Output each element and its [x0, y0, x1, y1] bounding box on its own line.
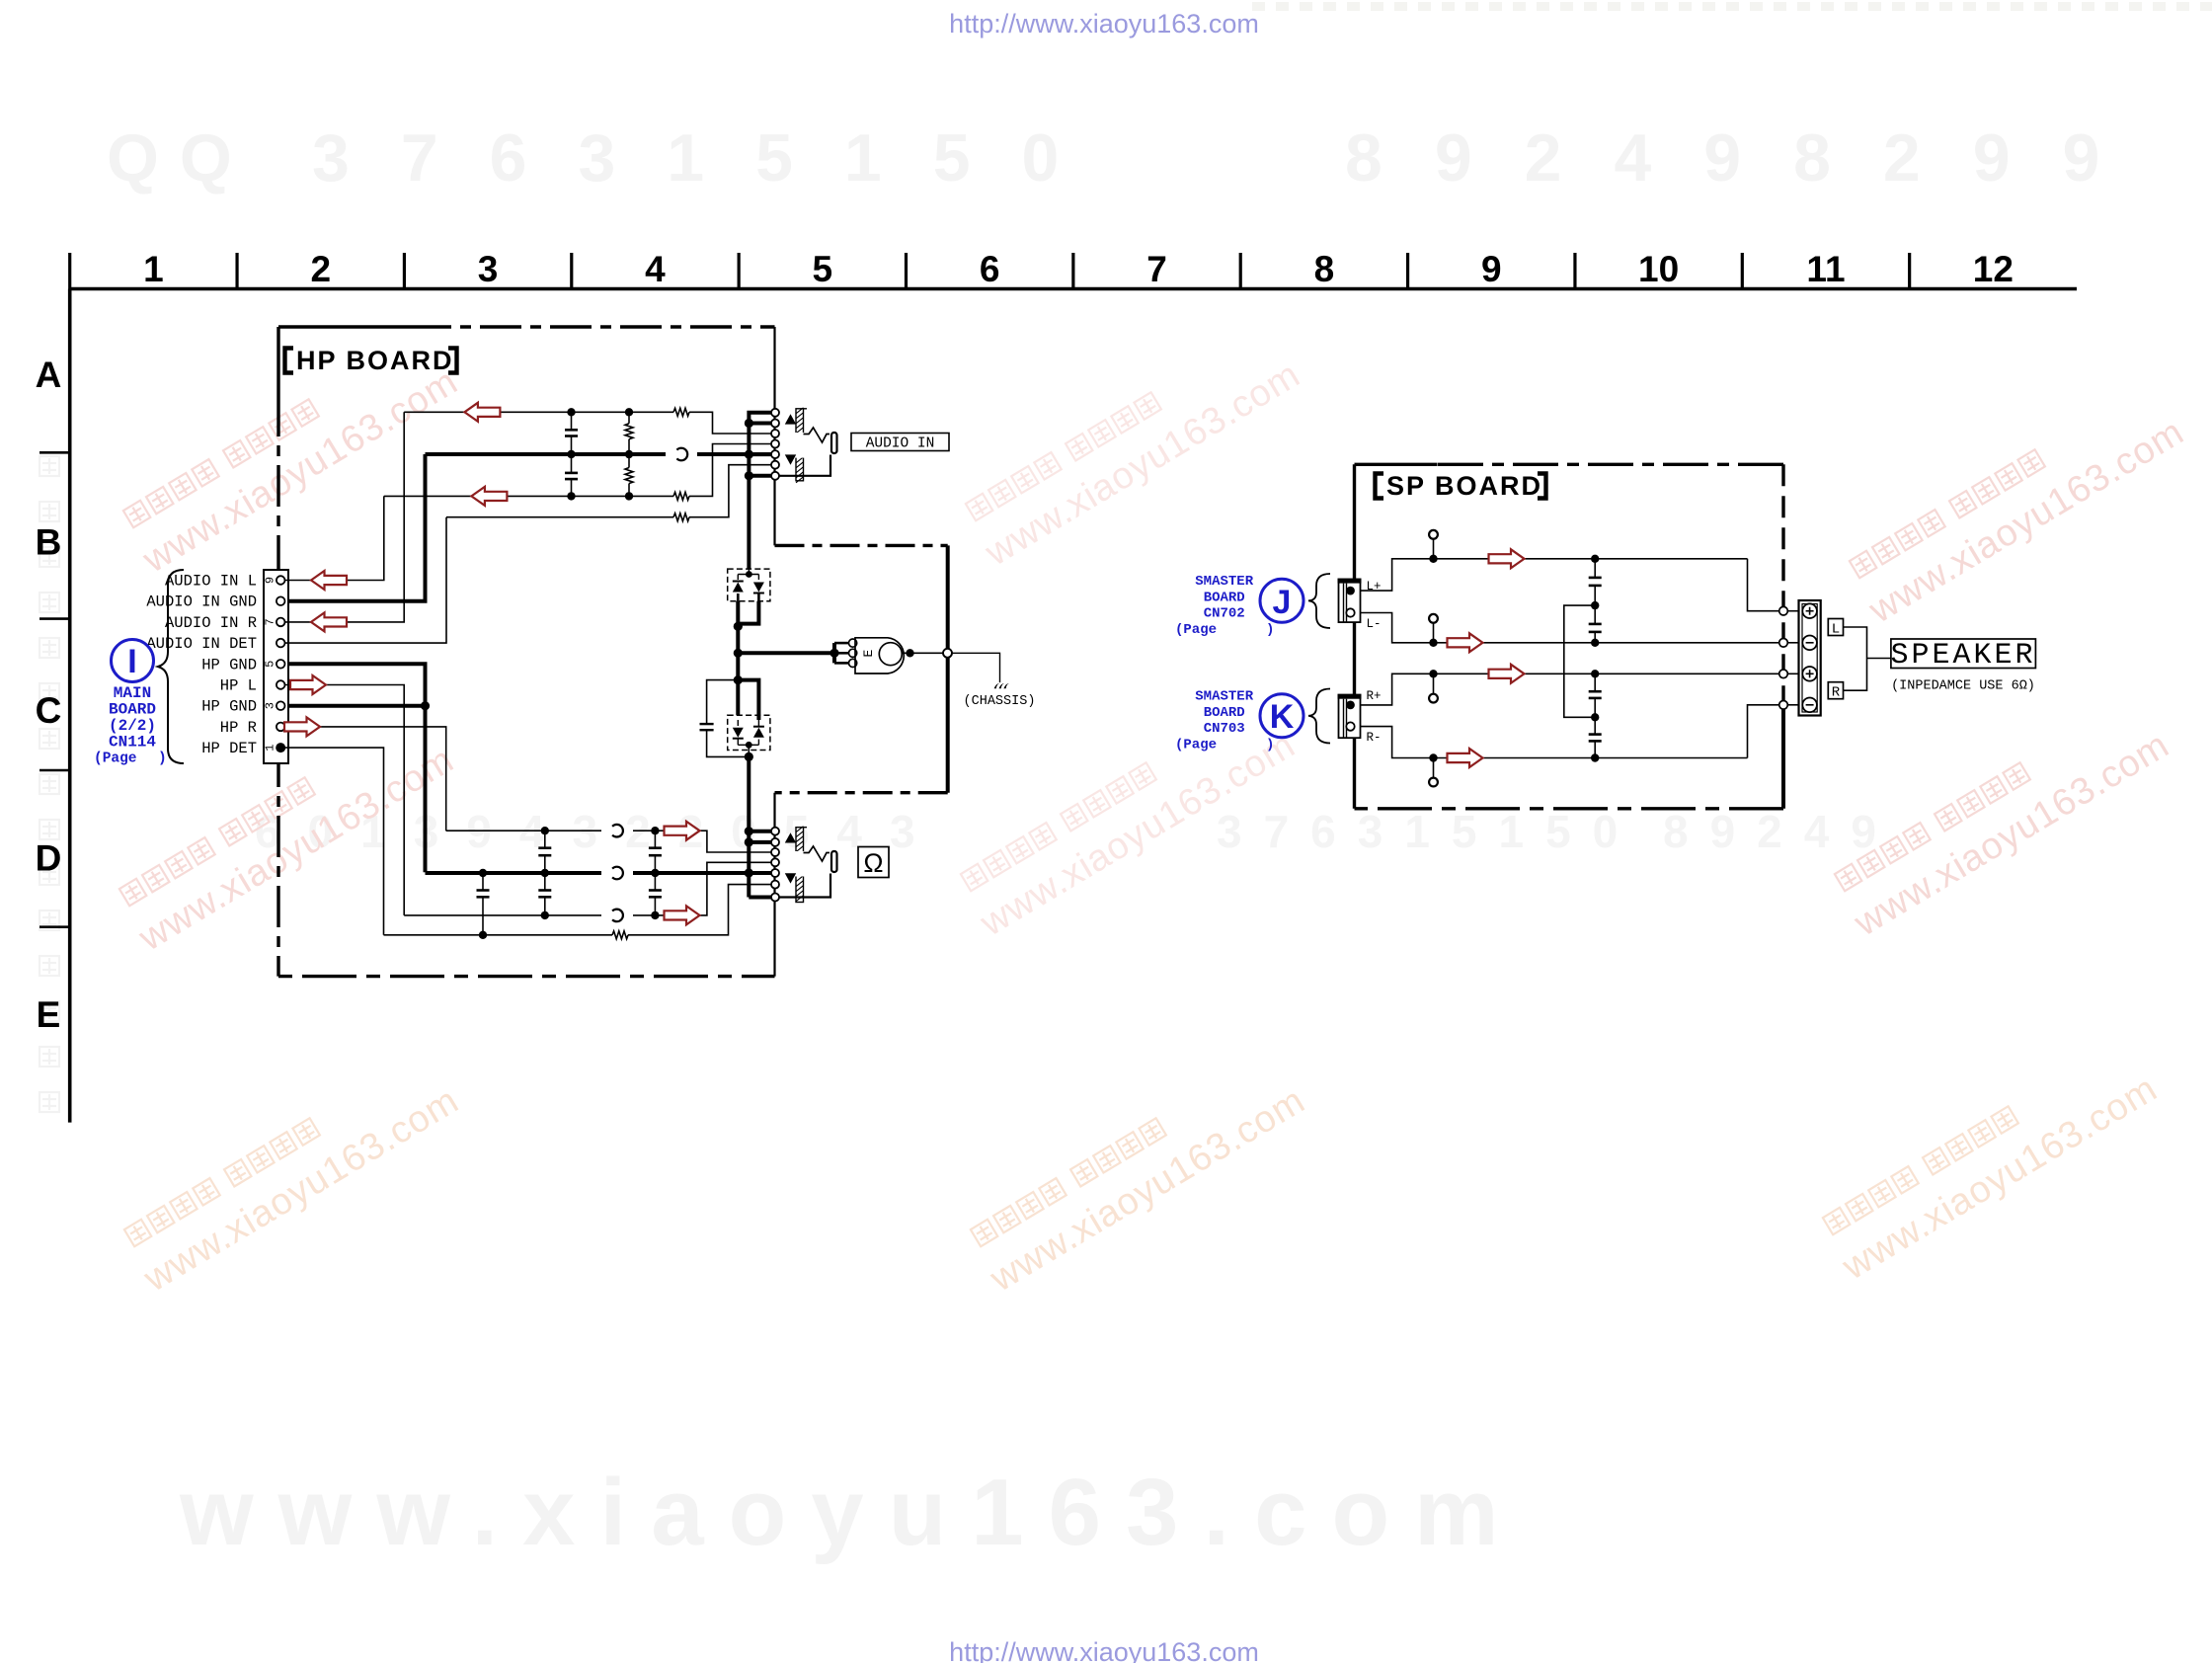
diode D2a (anode up) [733, 728, 744, 738]
junction dots on HP sleeve bus [745, 827, 753, 878]
label box R [1828, 682, 1843, 699]
svg-text:AUDIO IN: AUDIO IN [866, 436, 935, 452]
arrow on L+ [1489, 549, 1525, 568]
wire HP DET pin1 to column [280, 748, 384, 935]
SPEAKER label box [1891, 639, 2035, 669]
svg-text:BOARD: BOARD [1204, 590, 1245, 605]
connector CN702 pin filled [1346, 587, 1355, 595]
HP BOARD protrusion top edge [775, 544, 948, 547]
svg-text:3: 3 [478, 249, 499, 289]
connector CN114 pin labels [146, 573, 257, 758]
chassis jack E1 inner circle [879, 643, 902, 666]
audio-in jack J1 down triangle contact [785, 454, 796, 464]
svg-text:(INPEDAMCE USE 6Ω): (INPEDAMCE USE 6Ω) [1891, 679, 2035, 694]
svg-text:9: 9 [1481, 249, 1502, 289]
wire AUDIO IN R pin7 to column [284, 412, 404, 622]
blue circle J [1260, 579, 1303, 622]
HP BOARD outline right edge upper (through AUDIO IN jack pins) [773, 327, 775, 545]
HP BOARD protrusion right edge [946, 545, 950, 648]
svg-text:892498299: 892498299 [1345, 120, 2152, 196]
svg-text:R: R [1832, 685, 1841, 701]
capacitor C1 (row A-B) [571, 412, 573, 430]
HP jack pin1 stub [749, 830, 771, 833]
ruler ticks [70, 253, 1910, 289]
svg-text:(Page: (Page [1175, 622, 1217, 638]
svg-text:HP GND: HP GND [201, 698, 257, 716]
connector CN703 pin open [1346, 722, 1354, 730]
svg-text:): ) [158, 752, 167, 767]
terminal block TB1 [1799, 600, 1821, 716]
svg-text:CN703: CN703 [1204, 721, 1245, 737]
svg-text:AUDIO IN GND: AUDIO IN GND [146, 594, 257, 611]
test point TP4 below R- [1433, 758, 1435, 778]
svg-text:BOARD: BOARD [109, 701, 156, 719]
audio jack pin5 stub [749, 452, 771, 456]
wire AUDIO IN L pin9 to column [284, 496, 384, 580]
svg-text:6: 6 [980, 249, 1000, 289]
HP jack pin5 stub [749, 871, 771, 875]
connector CN703 pin filled [1346, 701, 1355, 710]
audio-in jack J1 sleeve outline [779, 455, 830, 476]
svg-text:BOARD: BOARD [1204, 705, 1245, 721]
svg-text:): ) [1266, 622, 1274, 638]
wire HP R pin2 to column [284, 727, 446, 831]
ruler numbers 1-12 [143, 249, 2014, 289]
headphone jack J2 pin circles [771, 828, 779, 902]
junction HP GND node [421, 701, 430, 710]
diode module D1 box [728, 569, 770, 601]
svg-text:HP L: HP L [220, 677, 257, 695]
wire L to speaker [1844, 627, 1867, 659]
headphone jack J2 down triangle contact [785, 873, 796, 883]
headphone jack J2 body edge [804, 827, 808, 829]
svg-text:D: D [36, 838, 62, 879]
svg-text:1: 1 [264, 744, 277, 751]
test point TP3 below R+ [1433, 673, 1435, 694]
HP BOARD outline bottom edge [278, 975, 775, 978]
arrow on R- [1448, 749, 1483, 767]
connector CN702 pin open [1346, 608, 1354, 616]
ferrite bead L1 on row B [676, 448, 687, 461]
svg-text:11: 11 [1806, 249, 1845, 289]
SP BOARD outline right edge [1781, 464, 1784, 705]
audio jack pin2 stub [749, 422, 771, 426]
junction dots lower network [479, 827, 660, 939]
svg-text:Ω: Ω [863, 848, 883, 878]
chassis jack E1 pin circles [849, 639, 857, 668]
board edge terminal circle [943, 649, 952, 658]
watermark top-right gray band [1252, 2, 2212, 11]
junction dot below D1 [734, 622, 743, 631]
resistor R4 vertical (row A-B) [628, 412, 630, 423]
svg-text:HP DET: HP DET [201, 740, 257, 757]
junction D1 entry dot [746, 571, 752, 578]
SP BOARD outline bottom edge [1355, 807, 1784, 810]
svg-text:376315150: 376315150 [312, 120, 1110, 196]
chassis jack E1 pin stubs [832, 643, 836, 663]
headphone jack J2 up triangle contact [785, 832, 796, 842]
svg-text:(Page: (Page [94, 752, 137, 767]
arrow on R+ [1489, 665, 1525, 683]
connector CN702 body [1339, 580, 1361, 623]
row letters A-E [36, 355, 62, 1035]
svg-text:http://www.xiaoyu163.com: http://www.xiaoyu163.com [949, 1637, 1259, 1663]
svg-text:1: 1 [143, 249, 164, 289]
svg-text:MAIN: MAIN [114, 684, 151, 702]
headphone jack J2 tip spring symbol [804, 846, 830, 861]
wire R+ from CN703 [1361, 673, 1779, 705]
svg-text:www.xiaoyu163.com: www.xiaoyu163.com [179, 1460, 1523, 1565]
wire to chassis jack E1 (thick) [738, 651, 834, 655]
arrow on row E [665, 822, 700, 840]
thick sleeve bus vertical (audio jack) [749, 413, 771, 569]
svg-text:9: 9 [264, 577, 277, 584]
watermark pink units [117, 330, 465, 582]
capacitor C3 (bypass at D2) [707, 680, 739, 725]
audio-in jack J1 body edge [804, 408, 808, 410]
wire HP GND pin5 (thick) [288, 664, 426, 872]
capacitor C4 (F-H) [482, 873, 484, 891]
HP jack pin2 stub [749, 840, 771, 844]
HP BOARD title [285, 346, 457, 375]
wire row B AUDIO IN GND (thick) [426, 452, 667, 456]
connector I circle (MAIN BOARD) [112, 640, 154, 682]
diode D1b (anode up) [753, 583, 764, 593]
svg-text:J: J [1273, 584, 1292, 621]
wire row E (HP R net) [446, 830, 601, 831]
watermark left vertical gray column [39, 456, 59, 1112]
wire R- from CN703 [1361, 727, 1748, 758]
audio-in jack J1 tip spring symbol [804, 428, 830, 442]
test point TP2 above L- [1433, 623, 1435, 643]
wire HP L pin4 to column [284, 685, 404, 915]
svg-text:R+: R+ [1367, 689, 1382, 703]
connector CN114 body [264, 570, 288, 763]
svg-text:376315150: 376315150 [1217, 806, 1639, 857]
svg-text:AUDIO IN R: AUDIO IN R [165, 614, 257, 632]
terminal block TB1 terminals [1802, 603, 1817, 618]
arrow on row A [464, 403, 500, 422]
svg-text:HP R: HP R [220, 719, 257, 737]
svg-text:C: C [36, 690, 62, 731]
arrow on AUDIO IN L wire [311, 571, 347, 590]
svg-text:(Page: (Page [1175, 737, 1217, 752]
connector CN114 pin numbers [264, 577, 277, 752]
svg-text:AUDIO IN L: AUDIO IN L [165, 573, 257, 591]
capacitor C11 (R+) [1594, 673, 1596, 691]
arrow on row G [665, 906, 700, 924]
diode D2b (anode down) [753, 728, 764, 738]
svg-text:8: 8 [1314, 249, 1335, 289]
wire row H (HP DET net) [384, 934, 613, 936]
svg-text:K: K [1270, 698, 1295, 736]
HP jack pin7 stub [749, 896, 771, 900]
audio-in jack J1 tip bar [831, 433, 837, 453]
wire to SPEAKER box [1867, 658, 1891, 660]
junction big dot below D2 [745, 752, 753, 761]
capacitor C2 (row B-C) [571, 454, 573, 473]
arrow on HP L wire [290, 675, 326, 694]
headphone jack J2 sleeve outline [779, 874, 830, 898]
ruler horizontal line [69, 287, 2077, 291]
wire row A (AUDIO IN R net) [404, 411, 673, 413]
capacitor C6 (F-G col1) [544, 873, 546, 891]
capacitor C7 (E-F col2) [654, 831, 656, 848]
chassis ground symbol [994, 683, 1009, 688]
diode module D2 box [728, 715, 770, 750]
row separator ticks [39, 452, 70, 926]
svg-text:10: 10 [1638, 249, 1679, 289]
svg-text:I: I [127, 643, 136, 680]
wire D1 output merge [738, 601, 758, 624]
diode D1a (anode down) [733, 583, 744, 593]
chassis jack E1 body [855, 638, 904, 673]
junction dots on sleeve bus [745, 419, 753, 481]
wire chassis [952, 653, 1000, 682]
resistor R3 on row D [673, 514, 689, 521]
wire AUDIO IN DET pin6 to column [284, 517, 446, 643]
HP BOARD outline right edge lower (through HP jack pins) [773, 793, 775, 977]
SP BOARD outline top edge [1355, 463, 1438, 466]
wire row D (AUDIO IN DET net) [446, 516, 673, 518]
wire E1 to board edge [902, 652, 943, 654]
bead L4 on row G [612, 910, 623, 922]
AUDIO IN label box [851, 434, 949, 451]
arrow on HP R wire [284, 717, 320, 736]
left border line [68, 289, 72, 1123]
audio-in jack J1 pin circles [771, 409, 779, 480]
svg-text:CN114: CN114 [109, 734, 156, 752]
audio-in jack J1 hatched sleeve bar [796, 409, 804, 481]
svg-text:4: 4 [645, 249, 666, 289]
arrow on AUDIO IN R wire [311, 612, 347, 631]
SP BOARD title [1376, 471, 1546, 501]
connector CN114 pins [276, 576, 285, 752]
test point TP1 above L+ [1433, 539, 1435, 559]
svg-text:89249: 89249 [1663, 806, 1898, 857]
brace for K [1308, 689, 1330, 744]
svg-text:12: 12 [1973, 249, 2014, 289]
resistor R5 vertical (row B-C) [628, 484, 630, 497]
svg-text:E: E [37, 994, 61, 1035]
headphone jack J2 tip bar [831, 851, 837, 872]
wire HP GND pin3 joins (thick) [288, 704, 426, 708]
wire row C (AUDIO IN L net) [384, 495, 673, 497]
svg-text:http://www.xiaoyu163.com: http://www.xiaoyu163.com [949, 9, 1259, 39]
svg-text:HP BOARD: HP BOARD [296, 346, 454, 375]
connector CN703 body [1339, 695, 1361, 739]
brace for CN114 [158, 570, 184, 763]
capacitor C5 (E-F col1) [544, 831, 546, 848]
svg-text:SP BOARD: SP BOARD [1386, 471, 1542, 501]
capacitor C10 (L-) [1594, 605, 1596, 624]
svg-text:5: 5 [264, 661, 277, 668]
svg-text:QQ: QQ [107, 120, 253, 196]
svg-text:3: 3 [264, 702, 277, 709]
wire L- from CN702 [1361, 613, 1779, 643]
wire row F HP GND (thick) [426, 871, 602, 875]
board edge terminals [1779, 606, 1788, 615]
svg-text:B: B [36, 522, 62, 563]
svg-text:E: E [861, 650, 876, 658]
wire link between cap midpoints [1564, 605, 1595, 717]
resistor R6 on row H [612, 931, 628, 939]
svg-text:CN702: CN702 [1204, 606, 1245, 622]
svg-text:7: 7 [264, 618, 277, 625]
audio jack pin7 stub [749, 474, 771, 478]
HP BOARD outline top edge [278, 325, 410, 328]
wire R to speaker [1844, 659, 1867, 691]
brace for J [1308, 574, 1330, 628]
svg-text:(CHASSIS): (CHASSIS) [964, 694, 1036, 709]
bead L3 on row F [612, 867, 623, 880]
SP BOARD outline left edge [1353, 464, 1356, 809]
HP BOARD outline left edge [276, 327, 279, 395]
svg-text:L-: L- [1367, 617, 1382, 631]
headphone symbol box [858, 847, 889, 878]
wire row G (HP L net) [404, 914, 601, 916]
resistor R2 on row C [673, 492, 689, 500]
arrow on L- [1448, 633, 1483, 652]
MAIN BOARD CN114 text [94, 684, 167, 767]
wire D1 node to D2 (thick) [734, 675, 743, 684]
audio-in jack J1 white gap in sleeve [794, 433, 805, 458]
svg-text:): ) [1266, 737, 1274, 752]
headphone jack J2 hatched sleeve bar [796, 828, 804, 903]
capacitor C9 (L+) [1594, 559, 1596, 578]
thick sleeve bus vertical to HP jack [747, 756, 750, 897]
diode module D1 wiring [748, 569, 750, 574]
wire AUDIO IN GND pin8 to column (thick) [288, 454, 426, 601]
arrow on row C [471, 487, 507, 506]
svg-text:5: 5 [813, 249, 833, 289]
label box L [1828, 619, 1843, 636]
resistor R1 on row A [673, 408, 689, 416]
svg-text:L: L [1832, 622, 1840, 638]
svg-text:SMASTER: SMASTER [1195, 689, 1253, 705]
svg-text:A: A [36, 355, 62, 395]
capacitor C8 (F-G col2) [654, 873, 656, 891]
headphone jack J2 white gap in sleeve [794, 851, 805, 877]
svg-text:7: 7 [1146, 249, 1167, 289]
bead L2 on row E [612, 825, 623, 837]
audio-in jack J1 up triangle contact [785, 414, 796, 424]
SMASTER BOARD CN702 text [1175, 574, 1274, 638]
diode module D2 wiring [737, 720, 739, 726]
svg-text:L+: L+ [1367, 580, 1382, 594]
svg-text:SMASTER: SMASTER [1195, 574, 1253, 590]
junction dots upper network [567, 408, 633, 501]
svg-text:R-: R- [1367, 731, 1382, 745]
svg-text:SPEAKER: SPEAKER [1890, 639, 2035, 673]
SMASTER BOARD CN703 text [1175, 689, 1274, 753]
capacitor C12 (R-) [1594, 717, 1596, 734]
svg-text:2: 2 [310, 249, 331, 289]
wire L+ from CN702 [1361, 559, 1748, 591]
svg-text:HP GND: HP GND [201, 656, 257, 673]
svg-text:AUDIO IN DET: AUDIO IN DET [146, 635, 257, 653]
HP BOARD protrusion bottom edge [775, 791, 948, 794]
blue circle K [1260, 694, 1303, 738]
svg-text:(2/2): (2/2) [109, 717, 156, 735]
